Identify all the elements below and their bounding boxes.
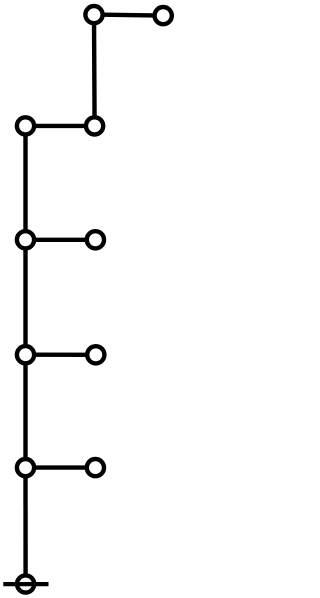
wire node9-node10 (row5 horizontal) <box>26 465 96 469</box>
node 7 (row4 left) <box>17 346 34 363</box>
ground terminal circle <box>17 575 34 592</box>
node 6 (row3 right) <box>87 231 104 248</box>
ground terminal crossbar <box>3 582 48 586</box>
wire node5-node6 (row3 horizontal) <box>26 238 96 242</box>
wire node7-node8 (row4 horizontal) <box>26 353 96 357</box>
node 5 (row3 left) <box>17 231 34 248</box>
node 10 (row5 right) <box>87 459 104 476</box>
node 9 (row5 left) <box>17 459 34 476</box>
wire node1-node2 (top horizontal) <box>94 15 163 16</box>
wire node1-node3 (vertical) <box>92 15 97 126</box>
node 1 (top left) <box>85 6 102 23</box>
wire node5-node7 (vertical) <box>23 240 27 355</box>
node 4 (row2 left) <box>17 117 34 134</box>
wire node7-node9 (vertical) <box>23 355 27 468</box>
wire node4-node5 (vertical) <box>23 126 27 240</box>
node 2 (top right) <box>155 7 172 24</box>
node 3 (row2 right) <box>86 117 103 134</box>
wire node3-node4 (row2 horizontal) <box>26 124 95 128</box>
node 8 (row4 right) <box>87 346 104 363</box>
wire node9-ground (vertical) <box>23 468 28 584</box>
